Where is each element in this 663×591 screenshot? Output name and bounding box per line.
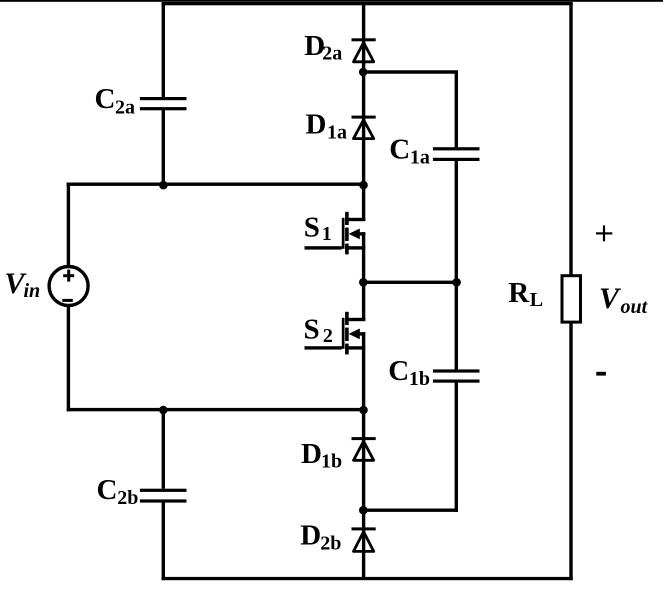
svg-text:1a: 1a [327, 121, 347, 143]
capacitor C1a [433, 147, 480, 161]
label Vin [5, 267, 41, 302]
wire right rail upper [569, 2, 572, 276]
mosfet S1 [305, 212, 366, 255]
wire top connector to C1a [363, 72, 456, 149]
wire middle rail lower section [362, 332, 365, 579]
wire top rail [162, 2, 573, 5]
svg-text:D: D [300, 520, 321, 552]
node junction C2b / lower rail [159, 406, 168, 415]
resistor RL [562, 276, 581, 322]
wire C2b bottom lead [162, 502, 165, 580]
label D2a [304, 30, 342, 65]
node junction C1 column / mid connector [452, 278, 461, 287]
svg-text:D: D [306, 109, 327, 141]
label D1b [301, 438, 342, 473]
diode D2a [352, 38, 376, 62]
capacitor C2b [140, 489, 187, 503]
label C2a [95, 83, 136, 119]
source Vin [49, 267, 88, 306]
label plus output [596, 225, 612, 241]
wire middle rail mid section [362, 232, 365, 320]
label C2b [97, 474, 139, 509]
svg-text:S: S [304, 314, 320, 346]
svg-text:in: in [24, 280, 41, 302]
top border line [0, 0, 663, 2]
label minus output [596, 372, 606, 376]
svg-text:1b: 1b [409, 368, 430, 390]
svg-text:L: L [530, 289, 543, 311]
node junction upper rail / middle rail [359, 181, 368, 190]
mosfet S2 [305, 312, 366, 355]
wire C1b top lead [455, 282, 458, 370]
svg-text:2: 2 [323, 325, 333, 347]
svg-text:S: S [304, 212, 320, 244]
svg-text:D: D [301, 438, 322, 470]
node junction D2a / top connector [359, 68, 368, 77]
svg-text:2b: 2b [117, 487, 138, 509]
svg-text:V: V [599, 282, 622, 315]
wire left rail upper (C2a top lead) [162, 2, 165, 97]
wire C2b top lead [162, 410, 165, 489]
svg-text:1: 1 [322, 223, 332, 245]
svg-text:2b: 2b [320, 533, 341, 555]
label Vout [599, 282, 649, 318]
wire mid connector [363, 281, 456, 284]
diode D1a [352, 116, 376, 139]
wire upper rail [67, 183, 366, 186]
diode D1b [352, 437, 376, 460]
wire right rail lower [569, 322, 572, 580]
svg-text:C: C [95, 83, 116, 115]
wire C1a bottom lead [455, 160, 458, 284]
svg-text:2a: 2a [322, 42, 342, 64]
wire C2a bottom lead [162, 110, 165, 186]
label D2b [300, 520, 341, 555]
svg-text:out: out [621, 296, 649, 318]
label RL [508, 277, 543, 311]
svg-text:C: C [388, 355, 409, 387]
svg-text:C: C [389, 134, 410, 166]
node junction C2a / upper rail [159, 181, 168, 190]
svg-text:1b: 1b [321, 451, 342, 473]
node junction lower connector / middle rail [359, 506, 368, 515]
label C1a [389, 134, 430, 169]
label C1b [388, 355, 430, 390]
wire lower connector [363, 509, 458, 512]
label S2 [304, 314, 333, 348]
node junction middle rail / mid connector [359, 278, 368, 287]
svg-text:C: C [97, 474, 118, 506]
wire bottom rail [162, 577, 573, 580]
capacitor C1b [433, 369, 480, 382]
node junction lower rail / middle rail [359, 406, 368, 415]
capacitor C2a [140, 97, 187, 110]
wire lower rail [67, 408, 366, 411]
diode D2b [352, 527, 376, 551]
label S1 [304, 212, 332, 246]
wire C1b bottom lead [455, 383, 458, 512]
wire Vin bottom lead [67, 306, 70, 412]
svg-text:R: R [508, 277, 530, 309]
wire Vin top lead [67, 183, 70, 267]
svg-text:2a: 2a [115, 97, 135, 119]
label D1a [306, 109, 348, 144]
svg-text:1a: 1a [410, 147, 430, 169]
wire middle rail upper section [362, 2, 365, 221]
